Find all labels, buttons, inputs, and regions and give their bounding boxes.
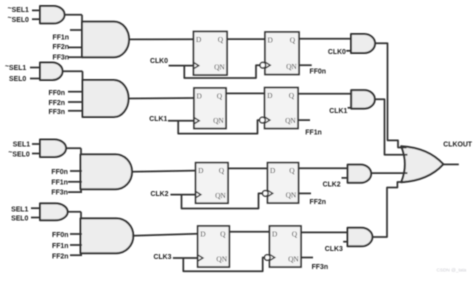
- svg-text:CLK3: CLK3: [325, 246, 343, 253]
- svg-text:D: D: [197, 91, 203, 100]
- svg-text:D: D: [198, 166, 204, 175]
- svg-text:~SEL1: ~SEL1: [5, 63, 26, 72]
- svg-text:D: D: [200, 229, 206, 238]
- svg-text:QN: QN: [214, 63, 225, 72]
- svg-text:QN: QN: [285, 116, 296, 125]
- svg-text:~SEL0: ~SEL0: [8, 150, 29, 159]
- svg-text:FF1n: FF1n: [51, 180, 67, 187]
- svg-text:SEL0: SEL0: [11, 215, 28, 222]
- svg-text:Q: Q: [217, 91, 223, 100]
- svg-text:FF2n: FF2n: [52, 253, 68, 260]
- svg-text:~SEL0: ~SEL0: [8, 15, 29, 24]
- svg-text:Q: Q: [292, 229, 298, 238]
- svg-text:FF3n: FF3n: [51, 190, 67, 197]
- svg-text:FF1n: FF1n: [53, 35, 69, 42]
- svg-text:~SEL1: ~SEL1: [8, 5, 29, 14]
- svg-text:CLK1: CLK1: [329, 108, 347, 115]
- svg-text:CLK0: CLK0: [150, 58, 168, 65]
- svg-text:FF0n: FF0n: [52, 232, 68, 239]
- svg-text:FF3n: FF3n: [312, 264, 328, 271]
- svg-text:FF0n: FF0n: [51, 169, 67, 176]
- svg-text:CLK2: CLK2: [151, 191, 169, 198]
- svg-text:D: D: [267, 91, 273, 100]
- svg-text:QN: QN: [286, 191, 297, 200]
- svg-text:FF3n: FF3n: [53, 55, 69, 62]
- svg-text:FF2n: FF2n: [49, 100, 65, 107]
- svg-text:Q: Q: [289, 166, 295, 175]
- svg-text:FF0n: FF0n: [310, 69, 326, 76]
- svg-text:D: D: [196, 35, 202, 44]
- svg-text:SEL0: SEL0: [9, 76, 26, 83]
- svg-text:QN: QN: [216, 255, 227, 264]
- svg-text:FF2n: FF2n: [53, 44, 69, 51]
- svg-text:Q: Q: [220, 229, 226, 238]
- svg-text:QN: QN: [215, 191, 226, 200]
- svg-text:CLK2: CLK2: [323, 181, 341, 188]
- svg-text:QN: QN: [286, 62, 297, 71]
- svg-text:QN: QN: [288, 255, 299, 264]
- svg-text:CLK1: CLK1: [149, 116, 167, 123]
- svg-text:CLK0: CLK0: [328, 49, 346, 56]
- svg-text:SEL1: SEL1: [11, 206, 28, 213]
- svg-text:FF1n: FF1n: [52, 243, 68, 250]
- svg-text:D: D: [270, 166, 276, 175]
- svg-text:FF3n: FF3n: [49, 109, 65, 116]
- svg-text:QN: QN: [213, 116, 224, 125]
- svg-text:D: D: [268, 35, 274, 44]
- svg-text:FF0n: FF0n: [49, 90, 65, 97]
- svg-text:CLK3: CLK3: [154, 254, 172, 261]
- svg-text:Q: Q: [289, 91, 295, 100]
- svg-text:Q: Q: [219, 166, 225, 175]
- svg-text:Q: Q: [218, 35, 224, 44]
- svg-text:D: D: [272, 229, 278, 238]
- svg-text:FF2n: FF2n: [310, 199, 326, 206]
- svg-text:Q: Q: [290, 35, 296, 44]
- svg-text:CLKOUT: CLKOUT: [443, 142, 472, 149]
- svg-text:SEL1: SEL1: [13, 141, 30, 148]
- svg-text:CSDN @_tata: CSDN @_tata: [437, 267, 467, 272]
- svg-text:FF1n: FF1n: [305, 130, 321, 137]
